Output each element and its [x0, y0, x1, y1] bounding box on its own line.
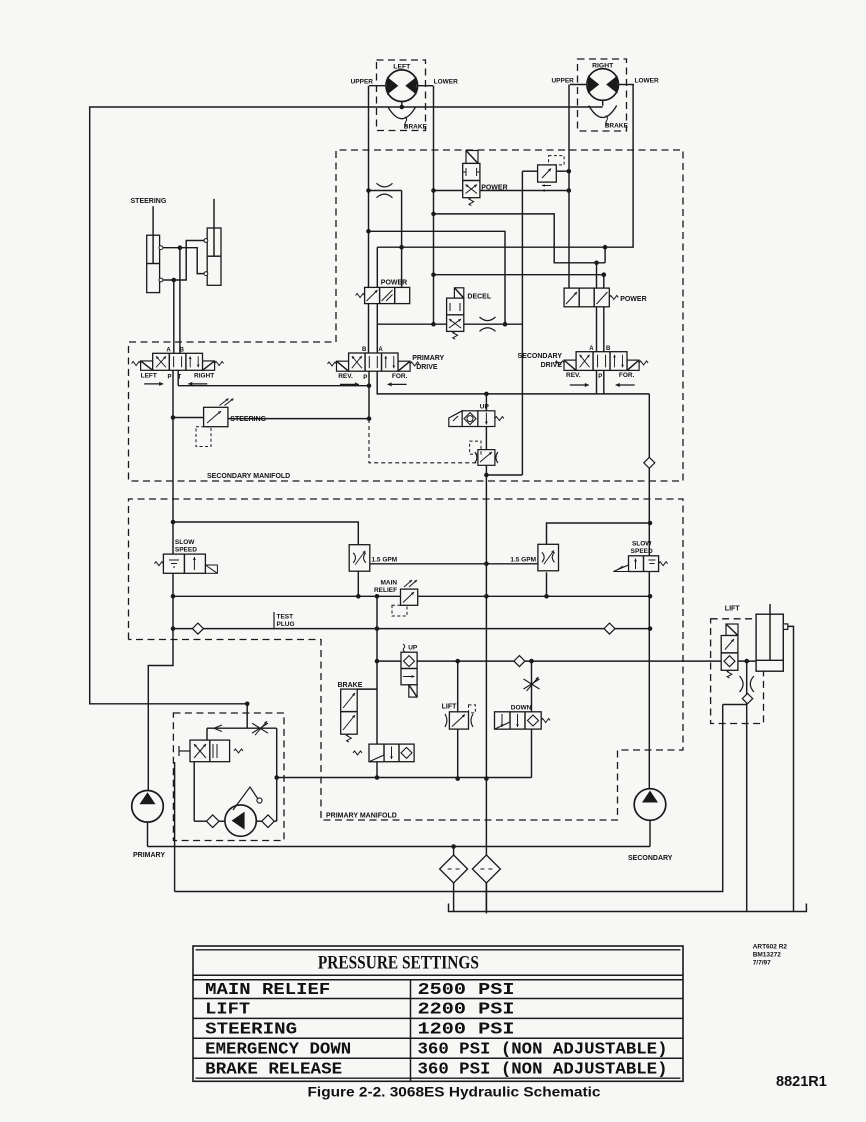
svg-text:PRIMARY MANIFOLD: PRIMARY MANIFOLD: [326, 813, 397, 820]
svg-text:ART602 R2: ART602 R2: [753, 944, 788, 951]
svg-text:PLUG: PLUG: [277, 621, 295, 628]
svg-text:1.5 GPM: 1.5 GPM: [510, 557, 536, 564]
svg-text:SLOW: SLOW: [175, 539, 195, 546]
svg-text:STEERING: STEERING: [131, 198, 167, 205]
svg-text:RELIEF: RELIEF: [374, 587, 397, 594]
svg-text:SPEED: SPEED: [175, 547, 197, 554]
svg-text:2500 PSI: 2500 PSI: [418, 980, 515, 999]
svg-text:P: P: [167, 375, 171, 381]
svg-text:STEERING: STEERING: [230, 416, 266, 423]
svg-text:BRAKE: BRAKE: [605, 123, 629, 130]
svg-text:PRESSURE SETTINGS: PRESSURE SETTINGS: [318, 953, 479, 974]
svg-text:RIGHT: RIGHT: [592, 63, 614, 70]
svg-text:RIGHT: RIGHT: [194, 373, 214, 380]
svg-text:POWER: POWER: [381, 280, 407, 287]
svg-text:TEST: TEST: [277, 614, 294, 621]
svg-text:POWER: POWER: [481, 185, 507, 192]
svg-text:LIFT: LIFT: [442, 704, 457, 711]
svg-text:DECEL: DECEL: [467, 294, 491, 301]
svg-text:SECONDARY: SECONDARY: [518, 353, 563, 360]
svg-text:DOWN: DOWN: [511, 705, 532, 712]
svg-text:DRIVE: DRIVE: [416, 364, 438, 371]
svg-text:360 PSI (NON ADJUSTABLE): 360 PSI (NON ADJUSTABLE): [418, 1059, 668, 1078]
svg-text:UPPER: UPPER: [551, 78, 574, 85]
svg-text:BM13272: BM13272: [753, 952, 782, 959]
svg-text:POWER: POWER: [620, 296, 646, 303]
svg-text:REV.: REV.: [338, 373, 353, 380]
svg-text:BRAKE: BRAKE: [338, 682, 363, 689]
svg-text:2200 PSI: 2200 PSI: [418, 1000, 515, 1019]
svg-text:MAIN RELIEF: MAIN RELIEF: [205, 980, 330, 999]
svg-text:LOWER: LOWER: [434, 79, 458, 86]
svg-text:LIFT: LIFT: [725, 606, 740, 613]
svg-text:1200 PSI: 1200 PSI: [418, 1020, 515, 1039]
svg-text:A: A: [378, 347, 383, 353]
svg-text:360 PSI (NON ADJUSTABLE): 360 PSI (NON ADJUSTABLE): [418, 1040, 668, 1059]
svg-text:8821R1: 8821R1: [776, 1074, 827, 1090]
svg-text:EMERGENCY DOWN: EMERGENCY DOWN: [205, 1040, 351, 1059]
svg-text:BRAKE: BRAKE: [404, 124, 428, 131]
svg-text:Figure 2-2. 3068ES Hydraulic: Figure 2-2. 3068ES Hydraulic Schematic: [308, 1084, 601, 1100]
svg-text:P: P: [598, 374, 602, 380]
svg-text:FOR.: FOR.: [619, 372, 635, 379]
svg-text:UPPER: UPPER: [351, 79, 374, 86]
svg-text:UP: UP: [408, 645, 418, 652]
svg-text:LIFT: LIFT: [205, 1000, 250, 1019]
svg-text:UP: UP: [480, 404, 490, 411]
svg-text:A: A: [589, 346, 594, 352]
svg-text:1.5 GPM: 1.5 GPM: [372, 557, 398, 564]
svg-text:LOWER: LOWER: [635, 78, 659, 85]
svg-text:SPEED: SPEED: [631, 548, 653, 555]
svg-text:LEFT: LEFT: [393, 64, 411, 71]
svg-text:A: A: [166, 347, 171, 353]
svg-text:7/7/97: 7/7/97: [753, 960, 771, 967]
svg-text:STEERING: STEERING: [205, 1020, 297, 1039]
svg-text:BRAKE RELEASE: BRAKE RELEASE: [205, 1059, 342, 1078]
svg-text:T: T: [178, 375, 182, 381]
svg-text:SLOW: SLOW: [632, 541, 652, 548]
svg-text:DRIVE: DRIVE: [541, 362, 563, 369]
svg-text:PRIMARY: PRIMARY: [412, 355, 444, 362]
svg-text:B: B: [606, 346, 611, 352]
svg-text:PRIMARY: PRIMARY: [133, 852, 165, 859]
svg-text:REV.: REV.: [566, 372, 581, 379]
svg-text:FOR.: FOR.: [392, 373, 408, 380]
svg-text:B: B: [362, 347, 367, 353]
svg-text:P: P: [363, 375, 367, 381]
svg-text:SECONDARY: SECONDARY: [628, 855, 673, 862]
svg-text:MAIN: MAIN: [380, 580, 397, 587]
svg-text:LEFT: LEFT: [141, 373, 157, 380]
svg-text:SECONDARY MANIFOLD: SECONDARY MANIFOLD: [207, 473, 290, 480]
